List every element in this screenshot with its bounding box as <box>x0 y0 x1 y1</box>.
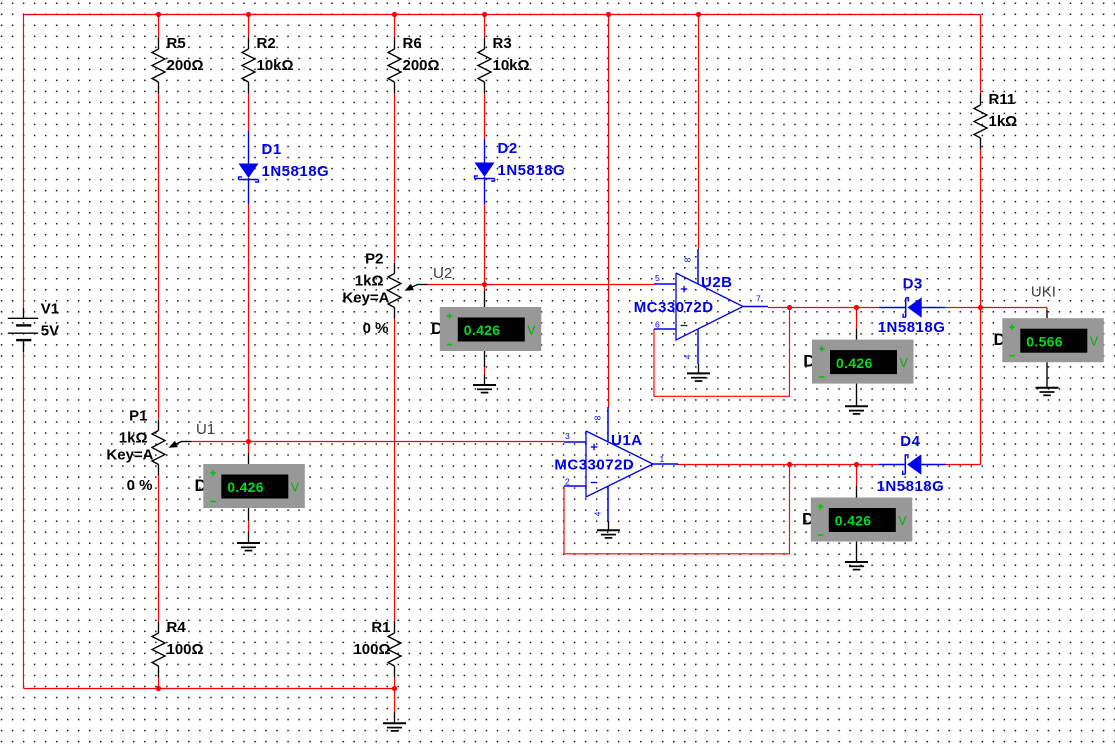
junction nodes <box>156 12 161 17</box>
svg-text:100Ω: 100Ω <box>353 641 390 658</box>
wire R1 to bottom bus <box>394 678 396 689</box>
svg-text:U1: U1 <box>196 421 215 438</box>
wire P2 to R1 <box>394 318 396 622</box>
svg-text:V: V <box>1090 335 1099 349</box>
resistor R2 10k&#937; <box>248 38 250 50</box>
ground G1 <box>237 542 260 544</box>
svg-text:D2: D2 <box>498 140 518 157</box>
svg-text:10kΩ: 10kΩ <box>493 57 530 74</box>
wire U1A pin8 supply column <box>608 15 610 409</box>
svg-text:1N5818G: 1N5818G <box>498 162 566 179</box>
resistor R4 100&#937; <box>158 622 160 634</box>
ground G3 (U2B pin4) <box>698 364 700 373</box>
wire R3 column top <box>484 15 486 38</box>
svg-text:V1: V1 <box>41 301 59 318</box>
wire R5 column top <box>158 15 160 38</box>
resistor R5 200&#937; <box>158 38 160 50</box>
svg-text:200Ω: 200Ω <box>403 57 440 74</box>
resistor R11 1k&#937; <box>980 94 982 106</box>
wire voltmeter M2 to ground G2 <box>484 351 486 367</box>
diode D2 1N5818G <box>484 139 486 163</box>
svg-text:UKI: UKI <box>1031 284 1056 301</box>
diode D3 1N5818G <box>879 307 906 309</box>
diode D4 1N5818G <box>879 464 906 466</box>
svg-text:MC33072D: MC33072D <box>554 457 634 474</box>
svg-text:D1: D1 <box>262 141 282 158</box>
svg-text:0.426: 0.426 <box>836 355 873 371</box>
wire P1 to R4 <box>158 475 160 622</box>
wire left branch lower (V1 bottom) <box>23 352 25 689</box>
svg-text:0 %: 0 % <box>363 320 389 337</box>
diode D1 1N5818G <box>248 131 250 164</box>
resistor R6 200&#937; <box>394 38 396 50</box>
wire node U2 to voltmeter M2 pin <box>484 285 486 291</box>
potentiometer P1 1k&#937; Key=A <box>158 420 160 431</box>
svg-text:Key=A: Key=A <box>106 447 153 464</box>
wire node to voltmeter M4 pin <box>856 465 858 487</box>
wire R11 column top <box>980 15 982 94</box>
svg-text:D4: D4 <box>900 433 920 450</box>
wire R5 to P1 <box>158 94 160 420</box>
wire voltmeter M5 to ground G7 <box>1046 362 1048 388</box>
wire net U2 (P2 wiper to U2B pin5) <box>428 284 655 286</box>
svg-text:V: V <box>900 356 909 370</box>
svg-text:P2: P2 <box>365 251 383 268</box>
ground G5 <box>845 405 868 407</box>
wire D4 to R11 column corner <box>946 464 981 466</box>
svg-text:R6: R6 <box>403 35 422 52</box>
svg-text:1kΩ: 1kΩ <box>355 273 384 290</box>
ground G6 <box>845 561 868 563</box>
wire node to voltmeter M3 pin <box>856 308 858 329</box>
svg-text:1: 1 <box>660 454 665 464</box>
wire R2 to D1 <box>248 94 250 132</box>
svg-text:U1A: U1A <box>611 432 643 449</box>
wire UKI corner to voltmeter M5 pin <box>1046 308 1048 311</box>
svg-text:1kΩ: 1kΩ <box>989 113 1018 130</box>
ground G4 (U1A pin4) <box>608 521 610 530</box>
svg-text:10kΩ: 10kΩ <box>257 57 294 74</box>
op-amp U1A MC33072D <box>564 441 586 443</box>
wire R4 to bottom bus <box>158 678 160 689</box>
svg-text:R2: R2 <box>257 35 276 52</box>
svg-text:1N5818G: 1N5818G <box>262 163 330 180</box>
wire U1A feedback loop <box>564 465 790 554</box>
ground G7 <box>1036 387 1059 389</box>
svg-text:R4: R4 <box>167 619 187 636</box>
wire voltmeter M1 to ground G1 <box>248 508 250 521</box>
ground G2 <box>473 384 496 386</box>
wire bottom bus <box>24 688 395 690</box>
svg-text:U2: U2 <box>433 265 452 282</box>
svg-text:0.426: 0.426 <box>835 513 872 529</box>
svg-text:0.426: 0.426 <box>464 322 501 338</box>
battery V1 <box>23 308 25 318</box>
svg-text:0.566: 0.566 <box>1026 333 1063 349</box>
resistor R3 10k&#937; <box>484 38 486 50</box>
svg-text:200Ω: 200Ω <box>167 57 204 74</box>
svg-text:U2B: U2B <box>701 274 733 291</box>
svg-text:0.426: 0.426 <box>227 479 264 495</box>
wire R3 to D2 <box>484 94 486 139</box>
svg-text:1kΩ: 1kΩ <box>119 430 148 447</box>
wire U2B pin8 supply column <box>698 15 700 250</box>
wire U2B output to D3 <box>768 307 879 309</box>
potentiometer P2 1k&#937; Key=A <box>394 263 396 274</box>
svg-text:4: 4 <box>683 354 693 359</box>
svg-text:8: 8 <box>683 257 693 262</box>
wire R6 to P2 <box>394 94 396 263</box>
wire D1 to node U1 <box>248 204 250 442</box>
wire R2 column top <box>248 15 250 38</box>
svg-text:7: 7 <box>756 294 761 304</box>
wire D3 to R11 column / UKI <box>946 307 1048 309</box>
svg-text:5: 5 <box>655 273 660 283</box>
wire top bus <box>24 14 981 16</box>
wire R6 column top <box>394 15 396 38</box>
svg-text:D3: D3 <box>903 276 923 293</box>
wire net U1 (P1 wiper to U1A pin3) <box>192 441 565 443</box>
ground G8 (R1 bottom) <box>394 712 396 723</box>
svg-text:1N5818G: 1N5818G <box>878 319 946 336</box>
wire U1A output to D4 <box>677 464 879 466</box>
svg-text:V: V <box>291 481 300 495</box>
wire U2B feedback loop <box>654 308 790 397</box>
svg-text:R5: R5 <box>167 35 186 52</box>
wire D2 to node U2 <box>484 204 486 284</box>
svg-text:0 %: 0 % <box>127 477 153 494</box>
svg-text:1N5818G: 1N5818G <box>877 478 945 495</box>
wire voltmeter M4 to ground G6 <box>856 542 858 563</box>
svg-text:2: 2 <box>565 477 570 487</box>
svg-text:100Ω: 100Ω <box>167 641 204 658</box>
svg-text:R1: R1 <box>371 619 390 636</box>
svg-text:6: 6 <box>655 320 660 330</box>
wire voltmeter M3 to ground G5 <box>856 384 858 407</box>
wire R11 bottom to D4 corner <box>980 150 982 465</box>
svg-text:MC33072D: MC33072D <box>634 299 714 316</box>
svg-text:V: V <box>527 324 536 338</box>
wire node U1 to voltmeter M1 pin <box>248 442 250 454</box>
wire bottom bus to ground G8 <box>394 689 396 713</box>
wire left branch upper (V1 top) <box>23 15 25 309</box>
svg-text:R11: R11 <box>989 91 1016 108</box>
svg-text:P1: P1 <box>129 408 147 425</box>
svg-text:4: 4 <box>593 511 603 516</box>
svg-text:8: 8 <box>593 415 603 420</box>
op-amp U2B MC33072D <box>654 283 676 285</box>
svg-text:3: 3 <box>565 431 570 441</box>
svg-text:R3: R3 <box>493 35 512 52</box>
svg-text:V: V <box>898 514 907 528</box>
svg-text:Key=A: Key=A <box>342 290 389 307</box>
resistor R1 100&#937; <box>394 622 396 634</box>
svg-text:5V: 5V <box>41 322 59 339</box>
